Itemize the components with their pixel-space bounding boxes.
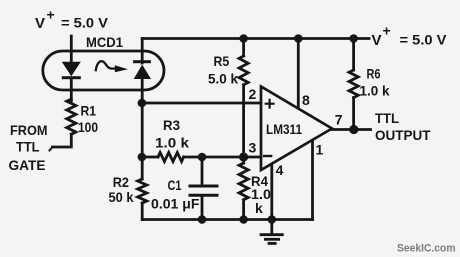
svg-text:= 5.0 V: = 5.0 V <box>400 33 447 48</box>
svg-text:TTL: TTL <box>375 110 399 126</box>
svg-text:7: 7 <box>335 112 343 128</box>
pin 3 minus mark <box>264 155 271 157</box>
svg-text:1: 1 <box>316 142 324 158</box>
node V+ left label <box>35 7 108 33</box>
resistor R6 <box>352 39 355 71</box>
input terminal tick <box>50 147 53 151</box>
svg-text:2: 2 <box>249 86 257 102</box>
node junction C1 bottom <box>198 215 207 224</box>
LED (emitter) inside MCD1 <box>62 62 81 79</box>
resistor R4 <box>242 157 245 163</box>
wire pin 8 <box>297 39 300 109</box>
wire pin 4 <box>270 165 273 220</box>
svg-text:0.01 μF: 0.01 μF <box>151 196 200 212</box>
resistor R3 <box>142 156 158 159</box>
svg-text:1.0 k: 1.0 k <box>360 83 390 99</box>
wire R1 bottom to input terminal <box>53 134 72 147</box>
node V+ right label <box>372 23 447 50</box>
svg-text:k: k <box>255 200 263 216</box>
pin 2 plus mark <box>266 103 274 105</box>
resistor R1 <box>67 99 76 134</box>
svg-text:1.0 k: 1.0 k <box>155 135 189 151</box>
svg-text:FROM: FROM <box>10 122 48 138</box>
photodiode (detector) inside MCD1 <box>133 60 151 79</box>
node junction V+ right <box>349 34 358 43</box>
wire V+ left drop to LED <box>70 36 73 63</box>
svg-text:OUTPUT: OUTPUT <box>375 127 431 143</box>
resistor R5 <box>242 39 245 57</box>
svg-text:4: 4 <box>276 162 284 178</box>
op-amp U1 LM311 <box>261 87 332 171</box>
node FROM TTL GATE label <box>9 122 48 173</box>
svg-text:+: + <box>47 7 55 23</box>
wire top rail <box>142 37 369 40</box>
capacitor C1 <box>201 157 204 185</box>
node junction C1 top <box>198 153 207 162</box>
svg-text:8: 8 <box>302 92 310 108</box>
node junction pin8 top <box>294 34 303 43</box>
node junction R5 top <box>239 34 248 43</box>
node junction ground <box>268 215 277 224</box>
svg-text:R6: R6 <box>367 66 381 82</box>
node junction photodiode output <box>138 99 147 108</box>
svg-text:V: V <box>35 15 45 32</box>
svg-text:R2: R2 <box>113 174 129 190</box>
node TTL OUTPUT label <box>375 110 431 143</box>
svg-text:TTL: TTL <box>16 139 40 155</box>
svg-text:R5: R5 <box>214 53 230 69</box>
light coupling arrow <box>96 61 115 70</box>
wire output from pin 7 <box>332 128 371 131</box>
wire bottom rail <box>142 218 312 221</box>
wire photodiode bottom to node <box>141 79 144 103</box>
wire R5 bottom down to pin3 node (crosses pin2 wire) <box>242 85 245 157</box>
svg-text:V: V <box>372 32 382 49</box>
svg-text:+: + <box>383 23 391 39</box>
svg-text:LM311: LM311 <box>266 122 302 137</box>
svg-text:100: 100 <box>78 119 98 135</box>
resistor R2 <box>141 157 144 179</box>
svg-text:C1: C1 <box>168 177 182 193</box>
wire pin2 line <box>142 102 261 105</box>
svg-text:SeekIC.com: SeekIC.com <box>397 243 456 255</box>
optocoupler MCD1 body <box>43 51 164 90</box>
node junction R3 left <box>138 153 147 162</box>
wire pin 1 <box>311 141 314 220</box>
wire photodiode top to top rail <box>141 39 144 64</box>
svg-text:50 k: 50 k <box>109 189 134 205</box>
svg-text:3: 3 <box>249 140 257 156</box>
wire photodiode node down to R3 node <box>141 103 144 157</box>
svg-text:GATE: GATE <box>9 157 46 173</box>
ground <box>270 220 273 235</box>
node junction pin3 <box>239 152 248 161</box>
node junction R4 bottom <box>239 215 248 224</box>
svg-text:MCD1: MCD1 <box>86 34 123 50</box>
svg-text:5.0 k: 5.0 k <box>208 71 238 87</box>
svg-text:= 5.0 V: = 5.0 V <box>61 16 108 31</box>
node junction output <box>349 125 358 134</box>
svg-text:R1: R1 <box>81 103 97 119</box>
wire LED cathode to R1 <box>70 79 73 101</box>
svg-text:R3: R3 <box>163 117 180 133</box>
